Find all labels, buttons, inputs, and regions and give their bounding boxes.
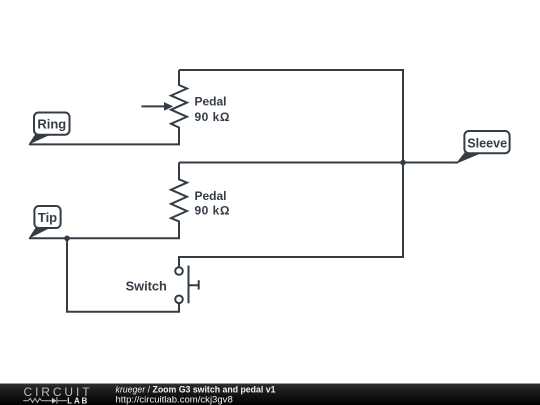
- svg-text:90 kΩ: 90 kΩ: [195, 204, 230, 218]
- svg-text:Sleeve: Sleeve: [467, 137, 507, 151]
- svg-text:http://circuitlab.com/ckj3gv8: http://circuitlab.com/ckj3gv8: [116, 395, 233, 405]
- svg-text:Ring: Ring: [37, 117, 66, 132]
- svg-text:Pedal: Pedal: [195, 95, 227, 109]
- svg-text:krueger / Zoom G3 switch and p: krueger / Zoom G3 switch and pedal v1: [116, 385, 276, 395]
- svg-text:Pedal: Pedal: [195, 189, 227, 203]
- svg-text:Switch: Switch: [126, 279, 167, 294]
- svg-text:LAB: LAB: [67, 396, 89, 405]
- svg-text:90 kΩ: 90 kΩ: [195, 110, 230, 124]
- svg-text:Tip: Tip: [38, 210, 57, 225]
